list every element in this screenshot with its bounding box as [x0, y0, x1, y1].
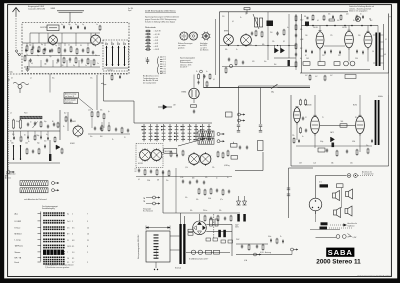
legend symbol row 2: [145, 33, 160, 36]
balance pot P2: [231, 156, 238, 160]
svg-text:56k: 56k: [331, 162, 334, 164]
resistor R28: [103, 113, 105, 120]
ac symbol: [101, 83, 106, 85]
tube U13 output driver: [356, 115, 365, 135]
capacitor C67: [44, 144, 46, 148]
diagonal wire IF: [253, 14, 259, 29]
switch S2 58a: [268, 84, 310, 93]
IF section enclosure: [204, 12, 349, 88]
audio parts row 2: [305, 49, 364, 55]
resistor R57: [101, 125, 103, 132]
svg-text:SABA: SABA: [328, 248, 353, 257]
resistor R54: [204, 215, 206, 222]
svg-text:8,2: 8,2: [283, 41, 285, 43]
svg-text:3 1: 3 1: [72, 246, 74, 248]
svg-text:0,4W: 0,4W: [353, 237, 357, 239]
resistor R8: [87, 58, 89, 65]
wire AM verticals 2: [92, 118, 109, 128]
svg-text:5n: 5n: [302, 136, 304, 138]
wire IF top drop: [246, 10, 248, 14]
trimmer C73: [84, 26, 86, 30]
svg-text:50k: 50k: [190, 210, 193, 212]
svg-text:100k: 100k: [208, 198, 211, 200]
coil L5: [13, 119, 15, 129]
labels tuner top row: [61, 24, 98, 26]
wire bus B+ upper: [239, 85, 311, 87]
legend symbol row 5: [145, 42, 158, 45]
svg-text:5,6: 5,6: [372, 51, 374, 53]
wire vertical x60: [59, 110, 61, 140]
test point TP1: [355, 16, 360, 21]
wire drop x238: [238, 86, 240, 124]
wire audio link: [324, 45, 345, 47]
capacitor C28: [94, 126, 96, 130]
coil L2: [76, 48, 78, 55]
svg-text:14 15: 14 15: [67, 246, 71, 248]
mixer tube U7 ECH81: [73, 125, 83, 138]
electrolytic C22: [350, 61, 355, 66]
wire speaker rail: [315, 176, 317, 199]
resistor R14: [283, 29, 285, 36]
svg-text:4,7n: 4,7n: [220, 199, 223, 201]
svg-text:3a: 3a: [67, 214, 69, 216]
capacitor C4: [64, 48, 66, 52]
cathode resistor R22: [303, 62, 310, 66]
svg-text:NF / TB: NF / TB: [15, 258, 22, 260]
fuse F1: [191, 250, 195, 254]
junction J4: [334, 25, 336, 27]
resistor R7: [75, 57, 77, 64]
switch column S4: [149, 124, 153, 142]
capacitor C54: [188, 233, 193, 236]
wire osc bus: [104, 67, 128, 69]
SABA logo: [326, 248, 354, 258]
svg-text:EF89: EF89: [224, 31, 228, 33]
AM oscillator dashed sub-enclosure: [103, 40, 129, 71]
FM dipole symbol: [57, 11, 84, 23]
svg-text:Stereo: Stereo: [15, 251, 21, 254]
coil L8: [20, 145, 21, 160]
svg-text:190: 190: [358, 35, 361, 37]
trimmer C3: [51, 48, 53, 52]
wire plate bus: [101, 42, 104, 44]
table right numbers: [67, 214, 89, 265]
svg-text:220: 220: [222, 16, 225, 18]
DIN TB terminal: [217, 133, 225, 136]
svg-text:L Lang: L Lang: [15, 240, 21, 242]
coil L12: [99, 25, 101, 31]
svg-text:390: 390: [12, 134, 15, 136]
labels psu right: [236, 236, 282, 262]
wire audio left rail: [301, 14, 303, 73]
resistor R10: [24, 55, 26, 62]
tube U12 ECH81: [311, 115, 320, 135]
DIN socket TB (hatched): [198, 131, 214, 137]
wire left mid rail: [49, 140, 51, 154]
capacitor C1: [32, 45, 34, 49]
svg-text:ECH81: ECH81: [70, 121, 76, 123]
svg-text:Cascode 2xECC85: Cascode 2xECC85: [28, 9, 46, 11]
speaker DIN jack: [347, 174, 357, 178]
wire bridge out top: [206, 224, 232, 226]
resistor R35: [227, 150, 229, 157]
wire driver mid horizontal: [296, 145, 372, 147]
wire antenna feed (dotted): [15, 16, 17, 49]
capacitor C68: [119, 75, 121, 79]
left DIN terminal 1: [52, 182, 60, 185]
capacitor C45: [346, 149, 348, 153]
table stereo row (bold): [43, 250, 64, 255]
IF transformer T1: [255, 18, 263, 27]
label box ECC83: [164, 149, 177, 154]
svg-text:TA Phono: TA Phono: [15, 245, 23, 248]
svg-text:5k: 5k: [28, 141, 30, 143]
wire EM84 feed: [193, 75, 195, 89]
svg-text:5k6: 5k6: [274, 64, 277, 66]
switch box S11: [214, 250, 220, 254]
svg-text:Klangregler: Klangregler: [143, 209, 152, 211]
resistor R1: [26, 45, 28, 52]
wire selector links: [170, 236, 179, 250]
power transformer T5 primary: [179, 224, 181, 264]
svg-text:56k: 56k: [225, 49, 228, 51]
diode D4: [56, 145, 60, 149]
tone network labels: [138, 163, 230, 212]
wire IF tube2 feed: [245, 12, 247, 15]
svg-text:1n: 1n: [216, 178, 218, 180]
svg-text:1,5k: 1,5k: [185, 167, 188, 169]
coil L6: [20, 119, 22, 129]
terminal circle TP2: [229, 64, 232, 67]
resistor R51: [215, 219, 218, 226]
svg-text:≈ 0,25 W: ≈ 0,25 W: [154, 31, 161, 33]
wire IF inner vertical: [267, 12, 269, 60]
resistor R25: [40, 121, 42, 128]
svg-text:47k: 47k: [205, 177, 208, 179]
svg-text:6p: 6p: [41, 44, 43, 46]
capacitor C62: [127, 128, 129, 132]
svg-text:20p: 20p: [44, 121, 47, 123]
choke L9: [320, 184, 329, 187]
switch column S6: [161, 124, 165, 142]
svg-text:ECH81: ECH81: [70, 143, 75, 145]
svg-text:H 1: H 1: [164, 71, 167, 73]
wire headphone: [316, 237, 337, 239]
dimension arrow: [146, 226, 170, 230]
resistor R62: [57, 122, 59, 128]
svg-text:80: 80: [52, 121, 54, 123]
resistor R40: [26, 148, 28, 155]
wire driver verticals: [297, 95, 360, 152]
table contact rows: [43, 212, 64, 264]
svg-text:Spannungswähler: Spannungswähler: [156, 246, 158, 259]
wire IF bottom stub: [203, 74, 205, 88]
wire heater stub: [291, 251, 293, 255]
DIN TA terminal: [217, 140, 225, 143]
svg-text:Ferrit: Ferrit: [15, 261, 20, 264]
labels osc coil: [105, 42, 124, 72]
FM tuner dashed enclosure: [22, 23, 129, 74]
wire AM lower bus: [88, 133, 130, 135]
switch column S9: [180, 124, 184, 142]
capacitor C53: [188, 229, 193, 232]
capacitor C8: [81, 58, 83, 62]
svg-text:460: 460: [11, 143, 14, 145]
capacitor C32: [150, 169, 152, 173]
triode U1b: [91, 34, 101, 47]
svg-text:8p: 8p: [73, 65, 75, 67]
output pentode U6 EL95: [364, 31, 372, 49]
svg-text:1k: 1k: [353, 20, 355, 22]
svg-text:F 2: F 2: [164, 64, 166, 66]
svg-text:130p: 130p: [36, 135, 39, 137]
resistor R41: [38, 148, 40, 155]
resistor R13: [261, 31, 263, 38]
AM antenna coupling: [13, 82, 29, 93]
resistor R5: [87, 47, 89, 54]
switch column S3: [141, 124, 145, 142]
switch column S11: [193, 124, 197, 142]
audio section enclosure: [300, 14, 389, 74]
wire center horizontal: [104, 100, 135, 102]
preamp wire bus upper: [136, 176, 232, 178]
svg-text:≈ 2 W: ≈ 2 W: [154, 40, 159, 42]
speaker SP3: [334, 208, 341, 218]
svg-text:0,1: 0,1: [213, 79, 215, 81]
DIN socket TA (hatched): [198, 138, 214, 144]
resistor R3: [58, 47, 60, 54]
twin triode U10b: [200, 152, 211, 166]
svg-text:10n: 10n: [264, 61, 267, 63]
capacitor C9: [57, 58, 59, 62]
speaker SP4: [345, 206, 352, 216]
wire speaker bottom: [310, 229, 340, 231]
capacitor C23: [237, 125, 240, 132]
svg-text:5 4: 5 4: [72, 252, 74, 254]
svg-text:470k: 470k: [352, 141, 355, 143]
resistor R34: [222, 152, 224, 159]
electrolytic C14: [288, 60, 290, 66]
IF transformer T2 core: [267, 21, 274, 27]
diode D5: [331, 137, 335, 147]
diode D6: [237, 196, 241, 205]
resistor R59: [121, 127, 123, 134]
svg-text:Dr 1: Dr 1: [319, 182, 322, 184]
output transformer T3 primary: [375, 33, 377, 67]
variable capacitor C26: [33, 121, 38, 128]
svg-text:M Mittel: M Mittel: [15, 233, 22, 236]
wire tuner divider: [60, 43, 62, 67]
wire tone drop: [213, 214, 215, 238]
wire diagonal to EM84: [79, 98, 94, 110]
resistor R15: [295, 15, 297, 22]
capacitor C35: [189, 180, 191, 184]
coupling capacitor C19: [307, 17, 308, 19]
capacitor C29: [100, 126, 102, 130]
heater terminal: [254, 253, 262, 256]
switch column S8: [174, 124, 178, 142]
svg-text:4k7: 4k7: [315, 76, 318, 78]
trimmer C72: [77, 25, 79, 29]
electrolytic C52: [243, 214, 246, 222]
capacitor C66: [371, 139, 373, 143]
capacitor C43: [305, 128, 307, 132]
capacitor C49: [287, 188, 290, 190]
svg-text:12k: 12k: [212, 167, 215, 169]
resistor R43: [305, 99, 307, 106]
resistor R67: [61, 148, 63, 154]
resistor R31: [156, 169, 158, 176]
svg-text:7: 7: [67, 252, 68, 254]
capacitor C18: [242, 60, 244, 64]
arrow headphone: [348, 234, 352, 238]
svg-text:1n: 1n: [287, 27, 289, 29]
capacitor C17: [228, 57, 230, 61]
capacitor C30: [193, 109, 195, 113]
svg-text:225: 225: [350, 162, 353, 164]
svg-text:1,2k: 1,2k: [88, 110, 91, 112]
capacitor C15: [295, 33, 297, 37]
triode U1a: [49, 34, 58, 46]
svg-text:2000 Stereo 11: 2000 Stereo 11: [316, 259, 361, 266]
diode D7: [243, 196, 247, 205]
capacitor C36: [196, 179, 198, 183]
twin triode U10a: [189, 152, 200, 166]
svg-text:nach Abnahme der Rückwand: nach Abnahme der Rückwand: [24, 198, 47, 201]
svg-text:240Ω: 240Ω: [51, 8, 56, 10]
svg-text:82: 82: [305, 55, 307, 57]
resistor R45: [340, 124, 347, 127]
resistor R37: [204, 189, 206, 196]
electrolytic C55: [218, 230, 221, 237]
info box Bereich: [64, 99, 78, 104]
svg-text:EL95: EL95: [343, 27, 347, 29]
electrolytic symbol legend: [145, 57, 149, 64]
svg-text:EL95: EL95: [353, 105, 357, 107]
svg-text:EM84: EM84: [182, 92, 187, 94]
svg-text:175: 175: [330, 35, 333, 37]
label cluster tuner values: [26, 44, 99, 67]
svg-text:21: 21: [87, 240, 89, 242]
svg-text:ECC85: ECC85: [41, 27, 49, 29]
TA terminal upper: [153, 196, 161, 199]
svg-text:6 8: 6 8: [72, 240, 74, 242]
IF junction dots: [228, 45, 290, 46]
legend heading: [145, 10, 176, 13]
info box Abstimmanzeige: [64, 93, 79, 98]
svg-text:2 7: 2 7: [72, 262, 74, 264]
svg-text:8 9: 8 9: [67, 234, 69, 236]
legend symbol row 4: [145, 39, 158, 42]
diode D3: [158, 105, 172, 109]
reserve socket box: [226, 112, 233, 117]
svg-text:12: 12: [87, 228, 89, 230]
svg-text:der Lautsprecher: der Lautsprecher: [143, 82, 157, 85]
resistor R50: [210, 219, 213, 226]
svg-text:E 2: E 2: [164, 59, 167, 61]
svg-text:5n: 5n: [360, 14, 362, 16]
svg-text:98: 98: [355, 117, 357, 119]
resistor R61: [182, 150, 184, 156]
capacitor C50: [287, 194, 290, 196]
svg-text:Widerstände:: Widerstände:: [145, 26, 157, 29]
legend symbol row 6: [145, 45, 158, 48]
wire bridge out bottom: [206, 231, 232, 233]
twin triode U9a: [140, 148, 151, 162]
capacitor C7: [69, 57, 71, 61]
junction J7: [361, 25, 363, 27]
svg-text:450: 450: [100, 136, 103, 138]
dashed line chassis top: [10, 73, 129, 75]
electrolytic C21: [344, 61, 349, 66]
svg-text:≈ 4 W: ≈ 4 W: [154, 43, 159, 45]
svg-text:460kHz: 460kHz: [378, 96, 383, 98]
svg-text:EABC80: EABC80: [305, 104, 312, 107]
svg-text:5p: 5p: [37, 55, 39, 57]
svg-text:1n: 1n: [85, 65, 87, 67]
svg-text:220k: 220k: [147, 180, 150, 182]
capacitor C5: [82, 48, 84, 52]
svg-text:Kontaktbelegung: Kontaktbelegung: [42, 207, 55, 210]
tube socket diagram V1: [180, 32, 188, 40]
svg-text:6,3V~ Heizung: 6,3V~ Heizung: [260, 252, 271, 254]
svg-text:5p: 5p: [250, 44, 252, 46]
decoupling block C20: [305, 22, 309, 27]
wire psu riser: [231, 225, 233, 257]
diode D2 ratio detector: [281, 45, 285, 53]
cathode resistor R24: [334, 62, 340, 66]
capacitor C75: [47, 136, 49, 140]
wire to info box: [49, 74, 51, 93]
svg-text:680: 680: [192, 178, 195, 180]
extra tuner parts row: [25, 48, 51, 54]
resistor R52: [248, 244, 250, 251]
junction J1: [306, 25, 308, 27]
junction J5: [344, 25, 346, 27]
resistor R20: [225, 67, 227, 74]
capacitor C33: [162, 170, 164, 174]
svg-text:250V: 250V: [236, 239, 239, 241]
legend symbol row 3: [145, 36, 158, 39]
preamp vertical drop: [175, 168, 177, 213]
capacitor C6: [92, 50, 94, 54]
wire center vertical x134: [133, 101, 135, 123]
svg-text:54: 54: [11, 78, 13, 80]
wire anode bus audio: [302, 25, 379, 27]
svg-text:75: 75: [322, 117, 324, 119]
svg-text:200p: 200p: [16, 121, 19, 123]
resistor R9: [93, 59, 95, 66]
wire preamp diag: [178, 139, 205, 147]
capacitor C10: [46, 58, 48, 62]
wire tuner drops: [27, 43, 94, 67]
svg-text:10,7: 10,7: [311, 20, 314, 22]
switch column S5: [154, 124, 158, 142]
wire center drop: [103, 75, 105, 101]
driver section left rail: [290, 95, 292, 166]
svg-text:130: 130: [305, 35, 308, 37]
AM IF transformer T4 secondary: [378, 100, 380, 145]
fuse F2: [198, 250, 202, 254]
resistor R29: [191, 105, 197, 107]
resistor R53: [262, 244, 264, 251]
svg-text:1k: 1k: [280, 236, 282, 238]
wire grid bus: [22, 42, 91, 44]
svg-text:2: 2: [87, 252, 88, 254]
wire transformer rail: [383, 24, 385, 70]
svg-text:0,1: 0,1: [317, 20, 319, 22]
svg-text:2: 2: [72, 221, 73, 223]
